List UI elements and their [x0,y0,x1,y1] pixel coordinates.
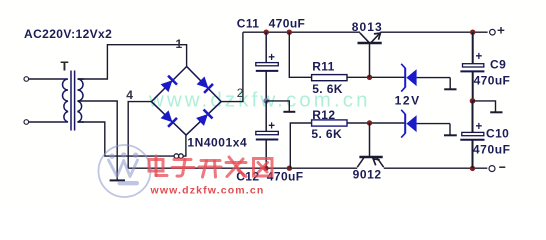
junction base 9012 [367,120,372,125]
terminal primary top [24,77,29,82]
svg-text:R11: R11 [312,60,335,74]
svg-text:+: + [476,121,483,133]
wire primary bottom lead [29,121,62,123]
capacitor C10 [472,101,474,132]
svg-text:8013: 8013 [352,20,383,34]
svg-text:T: T [61,58,69,73]
junction C9/C10 mid [470,98,476,104]
junction C9 top [470,30,475,35]
watermark red text big (stylized CJK strokes) [149,156,272,177]
wire bottom rail left segment [128,167,357,169]
svg-text:9012: 9012 [353,168,382,182]
wire top rail right segment [380,31,487,33]
diode D3 bottom-left [160,110,177,127]
capacitor C9 [472,32,474,63]
wire primary top lead [29,78,62,80]
svg-text:2: 2 [237,86,244,100]
svg-text:C10: C10 [486,126,509,140]
resistor R11 drop wire [289,32,311,77]
transformer T primary winding [62,79,68,122]
svg-text:4: 4 [126,88,133,102]
diode D2 top-right [196,76,213,93]
resistor R12 [312,120,347,126]
wire secondary bottom lead [78,122,175,156]
svg-text:C9: C9 [490,57,506,71]
bridge rectifier diamond wires [151,67,221,136]
wire node4 to bridge left vertex [128,102,151,169]
node connector circles [174,154,179,159]
junction R12 bottom [287,166,292,171]
capacitor C11 [265,32,267,62]
junction C11 top [264,30,269,35]
wire bottom rail right segment [384,167,488,169]
resistor R11 [312,75,347,81]
ground mid node [283,111,295,113]
wire R12 to base node [347,122,405,124]
svg-text:1N4001x4: 1N4001x4 [187,136,247,150]
junction base 8013 [367,75,372,80]
svg-text:470uF: 470uF [474,74,511,88]
wire bridge right vertex to top rail [221,32,243,101]
diode D4 bottom-right [196,110,213,127]
junction R11 top [287,30,292,35]
svg-text:C11: C11 [237,16,260,30]
wire R11 to base node [347,76,405,78]
wire secondary top lead to node 1 [78,45,187,79]
wire circle to bridge bottom [183,135,186,156]
zener ZD1 12V top [401,64,456,92]
svg-text:R12: R12 [312,108,335,122]
svg-text:1: 1 [176,37,183,51]
capacitor C12 [265,101,267,131]
wire secondary center tap down [78,101,118,180]
transformer core [70,71,72,131]
resistor R12 drop wire [290,123,311,168]
wire mid node to ground [266,101,289,112]
svg-text:470uF: 470uF [473,142,511,156]
junction C10 bottom [470,166,475,171]
node mid C11/C12 [263,98,269,104]
terminal output - [489,166,495,172]
wire top rail left segment [243,31,360,33]
ground center tap [110,179,125,181]
zener ZD2 12V bottom [401,110,457,138]
svg-text:5. 6K: 5. 6K [312,82,343,96]
wire mid to ground right [473,101,496,112]
transformer T secondary winding [78,79,85,122]
watermark logo [99,145,151,197]
svg-text:470uF: 470uF [269,16,306,30]
svg-text:12V: 12V [395,93,421,107]
svg-text:5. 6K: 5. 6K [311,127,342,141]
junction C12 bottom [263,166,268,171]
terminal primary bottom [24,120,29,125]
svg-text:+: + [476,51,483,63]
ground C9/C10 mid [490,111,502,113]
svg-text:AC220V:12Vx2: AC220V:12Vx2 [24,27,112,41]
terminal output + [490,29,496,35]
diode D1 top-left [160,76,177,93]
svg-text:+: + [268,120,275,132]
svg-text:www.dzkfw.com.cn: www.dzkfw.com.cn [150,185,265,197]
